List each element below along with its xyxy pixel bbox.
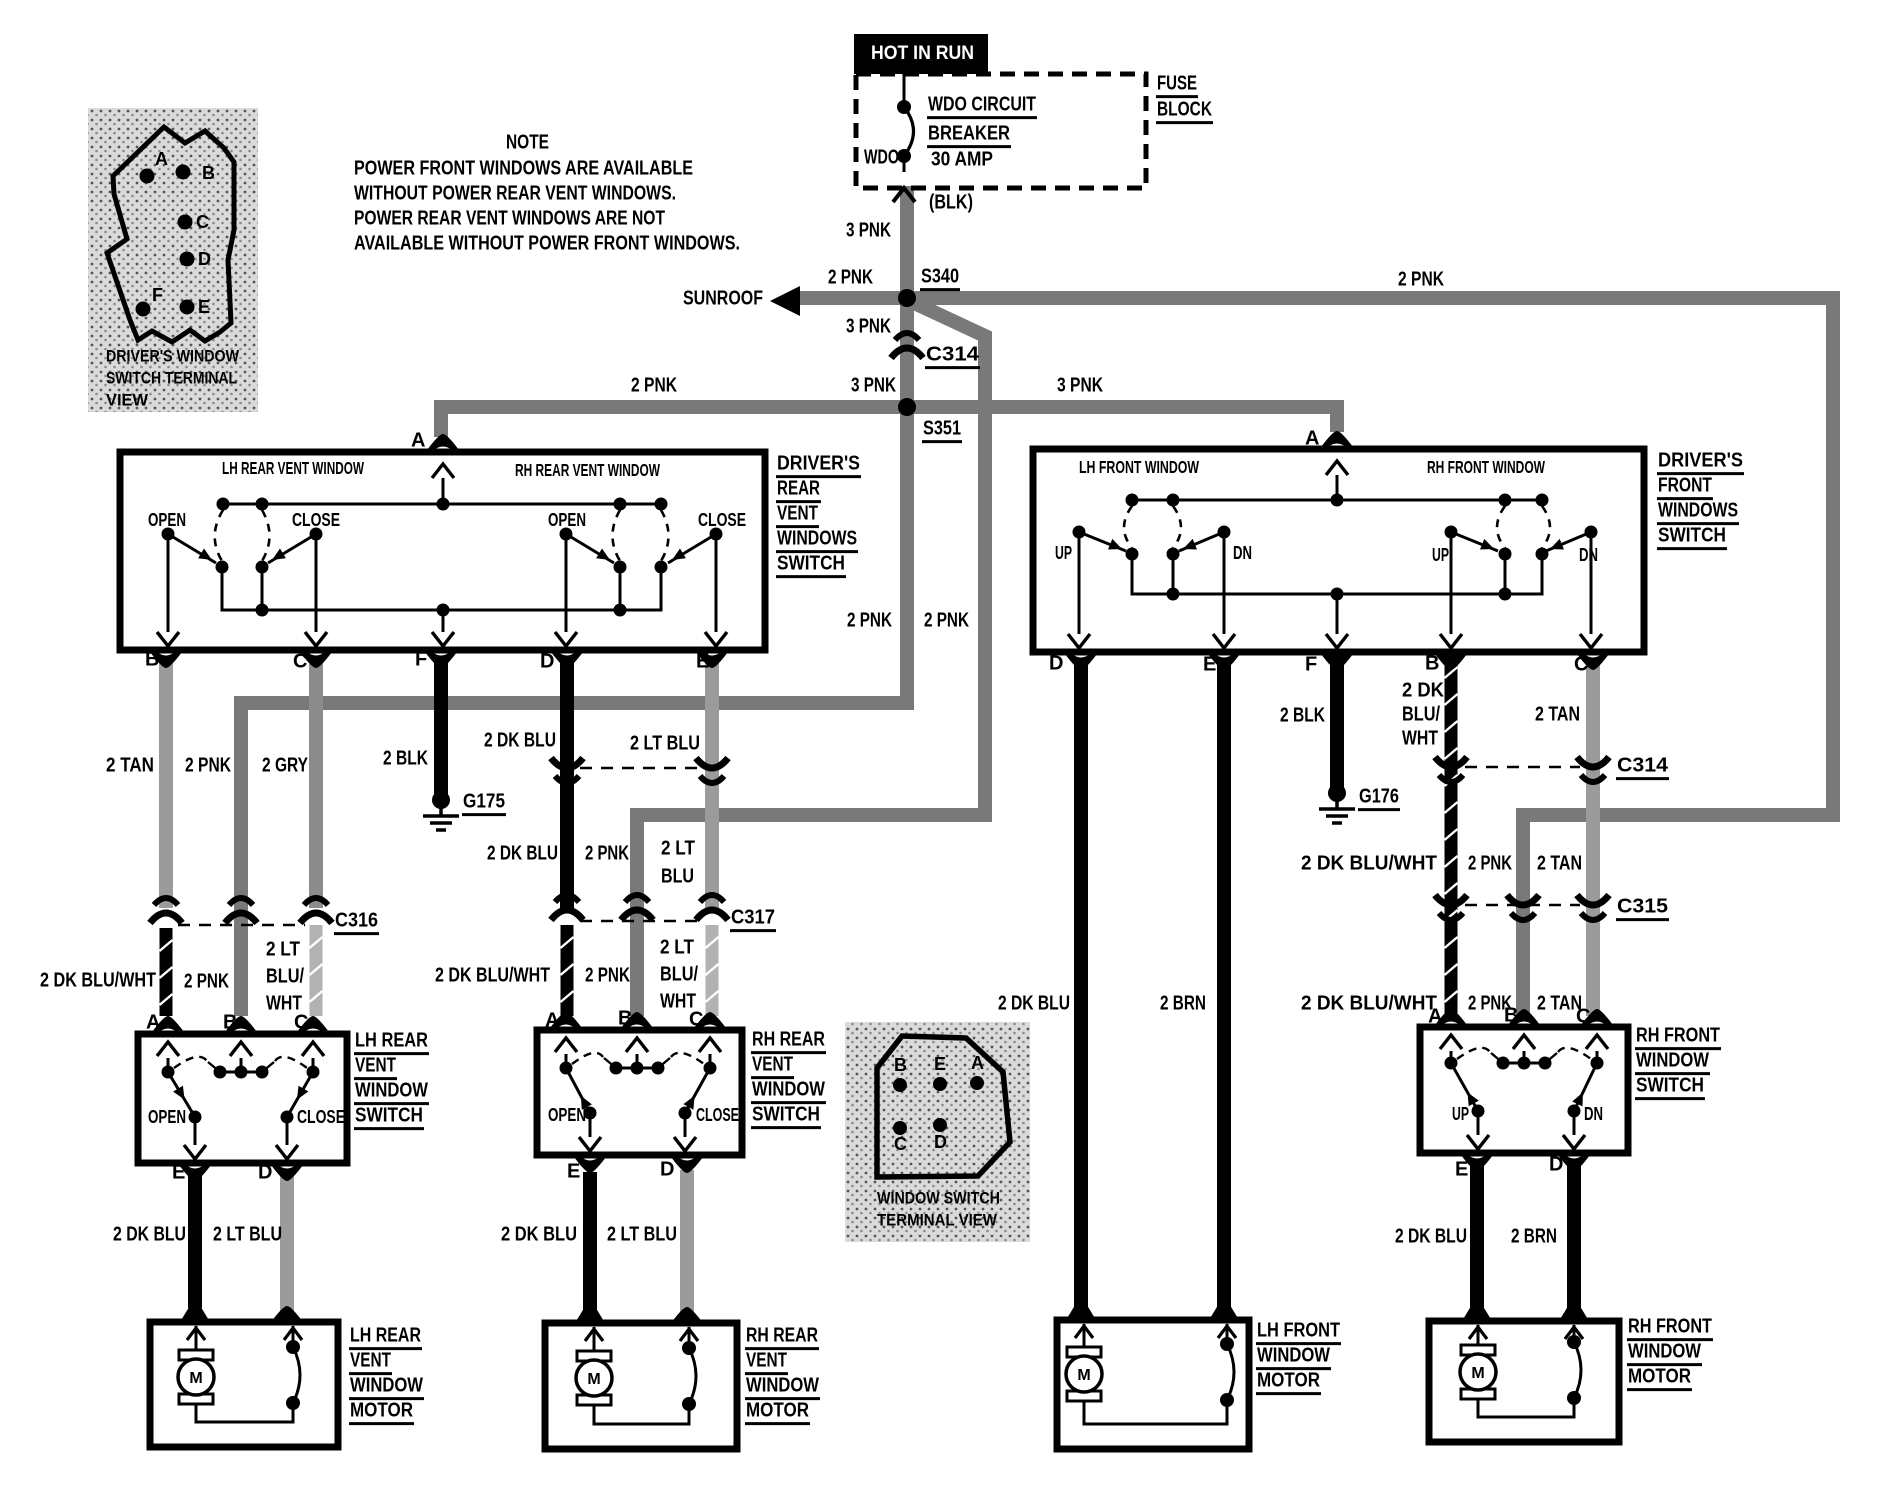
svg-text:DN: DN [1584, 1104, 1603, 1124]
svg-text:C316: C316 [335, 910, 378, 932]
svg-text:RH REAR: RH REAR [752, 1029, 825, 1051]
svg-text:3 PNK: 3 PNK [846, 316, 891, 338]
svg-text:E: E [172, 1162, 185, 1184]
svg-text:C: C [293, 651, 307, 673]
svg-text:UP: UP [1452, 1104, 1469, 1124]
svg-text:2 DK BLU/WHT: 2 DK BLU/WHT [435, 965, 550, 987]
svg-text:M: M [189, 1370, 202, 1387]
svg-text:WITHOUT POWER REAR VENT WINDOW: WITHOUT POWER REAR VENT WINDOWS. [354, 183, 676, 205]
svg-text:DRIVER'S WINDOW: DRIVER'S WINDOW [106, 346, 240, 365]
svg-text:BLU: BLU [661, 866, 694, 888]
svg-text:2 PNK: 2 PNK [585, 843, 629, 865]
svg-text:LH FRONT WINDOW: LH FRONT WINDOW [1079, 457, 1199, 477]
svg-text:2 DK BLU/WHT: 2 DK BLU/WHT [1301, 853, 1437, 875]
svg-text:VENT: VENT [355, 1055, 396, 1077]
svg-text:2 DK BLU: 2 DK BLU [1395, 1226, 1467, 1248]
svg-text:DRIVER'S: DRIVER'S [1658, 450, 1743, 472]
svg-text:B: B [618, 1008, 632, 1030]
svg-text:C317: C317 [731, 907, 775, 929]
svg-text:HOT IN RUN: HOT IN RUN [871, 43, 974, 64]
svg-text:RH REAR VENT WINDOW: RH REAR VENT WINDOW [515, 460, 660, 480]
svg-text:2 LT BLU: 2 LT BLU [213, 1224, 282, 1246]
svg-text:2 BLK: 2 BLK [383, 748, 428, 770]
svg-text:G175: G175 [463, 791, 505, 813]
svg-text:BLU/: BLU/ [660, 964, 698, 986]
svg-text:CLOSE: CLOSE [292, 510, 340, 530]
svg-text:2 TAN: 2 TAN [106, 755, 154, 777]
svg-text:D: D [198, 249, 211, 269]
svg-text:WINDOW: WINDOW [746, 1375, 819, 1397]
svg-text:BREAKER: BREAKER [928, 123, 1010, 145]
svg-text:2 LT: 2 LT [266, 939, 300, 961]
svg-text:MOTOR: MOTOR [350, 1400, 413, 1422]
svg-text:WDO CIRCUIT: WDO CIRCUIT [928, 94, 1036, 116]
svg-text:30 AMP: 30 AMP [931, 149, 993, 171]
svg-text:2 DK BLU: 2 DK BLU [998, 993, 1070, 1015]
svg-text:RH FRONT WINDOW: RH FRONT WINDOW [1427, 457, 1545, 477]
svg-text:SWITCH: SWITCH [752, 1104, 820, 1126]
svg-text:CLOSE: CLOSE [297, 1107, 345, 1127]
svg-text:2 PNK: 2 PNK [585, 965, 630, 987]
svg-text:2 LT BLU: 2 LT BLU [630, 733, 700, 755]
svg-text:M: M [1077, 1367, 1090, 1384]
svg-text:REAR: REAR [777, 478, 820, 500]
svg-text:POWER FRONT WINDOWS ARE AVAILA: POWER FRONT WINDOWS ARE AVAILABLE [354, 158, 693, 180]
svg-text:MOTOR: MOTOR [1257, 1370, 1320, 1392]
svg-text:3 PNK: 3 PNK [851, 375, 896, 397]
svg-text:G176: G176 [1359, 786, 1399, 808]
svg-text:UP: UP [1055, 543, 1072, 563]
svg-text:E: E [1455, 1159, 1468, 1181]
svg-text:WINDOW: WINDOW [350, 1375, 423, 1397]
svg-text:MOTOR: MOTOR [1628, 1366, 1691, 1388]
svg-text:E: E [198, 297, 210, 317]
svg-text:RH FRONT: RH FRONT [1628, 1316, 1712, 1338]
svg-text:SWITCH: SWITCH [1636, 1075, 1704, 1097]
svg-text:2 BLK: 2 BLK [1280, 705, 1325, 727]
svg-text:LH FRONT: LH FRONT [1257, 1320, 1340, 1342]
svg-text:WINDOW: WINDOW [1636, 1050, 1709, 1072]
svg-text:BLU/: BLU/ [1402, 704, 1440, 726]
svg-text:C315: C315 [1617, 896, 1668, 918]
svg-text:3 PNK: 3 PNK [1057, 375, 1103, 397]
svg-text:VENT: VENT [777, 503, 818, 525]
svg-text:NOTE: NOTE [506, 132, 549, 154]
svg-text:A: A [1305, 428, 1319, 450]
svg-text:B: B [145, 649, 159, 671]
svg-text:2 PNK: 2 PNK [1398, 269, 1444, 291]
svg-text:D: D [258, 1162, 272, 1184]
svg-text:FUSE: FUSE [1157, 73, 1197, 95]
svg-text:LH REAR: LH REAR [355, 1030, 428, 1052]
svg-text:POWER REAR VENT WINDOWS ARE NO: POWER REAR VENT WINDOWS ARE NOT [354, 208, 665, 230]
svg-text:D: D [660, 1159, 674, 1181]
svg-text:A: A [411, 430, 425, 452]
svg-text:MOTOR: MOTOR [746, 1400, 809, 1422]
svg-text:C314: C314 [926, 344, 980, 366]
svg-text:2 GRY: 2 GRY [262, 755, 309, 777]
svg-text:A: A [155, 149, 168, 169]
svg-text:2 BRN: 2 BRN [1511, 1226, 1557, 1248]
svg-text:C: C [294, 1012, 308, 1034]
svg-text:OPEN: OPEN [548, 510, 586, 530]
svg-text:CLOSE: CLOSE [698, 510, 746, 530]
svg-text:F: F [152, 285, 163, 305]
svg-text:E: E [934, 1054, 946, 1074]
svg-text:2 DK BLU/WHT: 2 DK BLU/WHT [40, 970, 156, 992]
svg-text:2 PNK: 2 PNK [828, 267, 873, 289]
svg-text:2 DK BLU/WHT: 2 DK BLU/WHT [1301, 993, 1437, 1015]
svg-text:D: D [934, 1132, 947, 1152]
svg-text:2 PNK: 2 PNK [184, 971, 229, 993]
svg-text:2 LT BLU: 2 LT BLU [607, 1224, 677, 1246]
svg-text:RH REAR: RH REAR [746, 1325, 818, 1347]
svg-text:A: A [1428, 1006, 1442, 1028]
svg-text:SWITCH: SWITCH [355, 1105, 423, 1127]
svg-text:DN: DN [1233, 543, 1252, 563]
svg-text:DN: DN [1579, 545, 1598, 565]
svg-text:RH FRONT: RH FRONT [1636, 1025, 1720, 1047]
svg-text:C: C [1576, 1006, 1590, 1028]
svg-text:LH REAR VENT WINDOW: LH REAR VENT WINDOW [222, 458, 364, 478]
svg-text:(BLK): (BLK) [929, 192, 973, 214]
svg-text:2 PNK: 2 PNK [185, 755, 231, 777]
svg-text:D: D [1549, 1154, 1563, 1176]
svg-text:WDO: WDO [864, 147, 899, 169]
svg-text:OPEN: OPEN [148, 1107, 186, 1127]
svg-text:2 DK BLU: 2 DK BLU [484, 730, 556, 752]
svg-text:SWITCH: SWITCH [1658, 525, 1726, 547]
svg-text:F: F [1305, 654, 1317, 676]
svg-text:OPEN: OPEN [548, 1105, 586, 1125]
svg-text:WINDOW: WINDOW [1628, 1341, 1701, 1363]
svg-text:2 PNK: 2 PNK [631, 375, 677, 397]
svg-text:A: A [971, 1053, 984, 1073]
svg-text:OPEN: OPEN [148, 510, 186, 530]
svg-text:M: M [587, 1371, 600, 1388]
svg-text:2 PNK: 2 PNK [924, 610, 969, 632]
svg-text:2 DK: 2 DK [1402, 680, 1445, 702]
svg-text:LH REAR: LH REAR [350, 1325, 421, 1347]
svg-text:2 PNK: 2 PNK [847, 610, 892, 632]
svg-text:WINDOWS: WINDOWS [1658, 500, 1738, 522]
svg-text:VIEW: VIEW [106, 390, 149, 409]
svg-text:C: C [894, 1134, 907, 1154]
svg-text:SWITCH TERMINAL: SWITCH TERMINAL [106, 368, 237, 387]
svg-text:VENT: VENT [746, 1350, 787, 1372]
svg-text:D: D [1049, 653, 1063, 675]
svg-text:A: A [146, 1012, 160, 1034]
svg-text:E: E [696, 651, 709, 673]
svg-text:2 LT: 2 LT [661, 838, 695, 860]
svg-text:UP: UP [1432, 545, 1449, 565]
svg-text:TERMINAL VIEW: TERMINAL VIEW [877, 1210, 998, 1229]
svg-text:C: C [196, 212, 209, 232]
svg-text:2 DK BLU: 2 DK BLU [501, 1224, 577, 1246]
svg-text:B: B [1504, 1005, 1518, 1027]
svg-text:BLU/: BLU/ [266, 966, 304, 988]
svg-text:F: F [415, 649, 427, 671]
svg-text:2 PNK: 2 PNK [1468, 853, 1512, 875]
svg-text:2 DK BLU: 2 DK BLU [487, 843, 558, 865]
svg-text:2 TAN: 2 TAN [1537, 853, 1582, 875]
svg-text:WHT: WHT [1402, 728, 1438, 750]
svg-text:WINDOWS: WINDOWS [777, 528, 857, 550]
svg-text:D: D [540, 651, 554, 673]
svg-text:CLOSE: CLOSE [696, 1105, 739, 1125]
svg-text:WINDOW: WINDOW [355, 1080, 428, 1102]
svg-text:C: C [1574, 654, 1588, 676]
svg-text:SUNROOF: SUNROOF [683, 288, 763, 310]
svg-text:C: C [689, 1009, 703, 1031]
svg-text:2 TAN: 2 TAN [1535, 704, 1580, 726]
svg-text:BLOCK: BLOCK [1157, 99, 1212, 121]
svg-text:B: B [1425, 653, 1439, 675]
svg-text:2 LT: 2 LT [660, 937, 694, 959]
svg-text:VENT: VENT [752, 1054, 793, 1076]
svg-text:2 DK BLU: 2 DK BLU [113, 1224, 186, 1246]
svg-text:WINDOW: WINDOW [1257, 1345, 1330, 1367]
svg-text:FRONT: FRONT [1658, 475, 1712, 497]
svg-text:SWITCH: SWITCH [777, 553, 845, 575]
svg-text:E: E [1203, 654, 1216, 676]
svg-text:E: E [567, 1161, 580, 1183]
svg-text:M: M [1471, 1365, 1484, 1382]
svg-text:B: B [223, 1012, 237, 1034]
svg-text:B: B [894, 1055, 907, 1075]
svg-text:S351: S351 [923, 418, 961, 440]
svg-text:AVAILABLE WITHOUT POWER FRONT: AVAILABLE WITHOUT POWER FRONT WINDOWS. [354, 233, 740, 255]
svg-text:C314: C314 [1617, 755, 1669, 777]
svg-text:S340: S340 [921, 266, 959, 288]
svg-text:WINDOW: WINDOW [752, 1079, 825, 1101]
svg-text:3 PNK: 3 PNK [846, 220, 891, 242]
svg-text:B: B [202, 163, 215, 183]
svg-text:VENT: VENT [350, 1350, 391, 1372]
svg-text:DRIVER'S: DRIVER'S [777, 453, 860, 475]
svg-text:WINDOW SWITCH: WINDOW SWITCH [877, 1188, 1000, 1207]
svg-text:2 BRN: 2 BRN [1160, 993, 1206, 1015]
svg-text:A: A [545, 1010, 559, 1032]
